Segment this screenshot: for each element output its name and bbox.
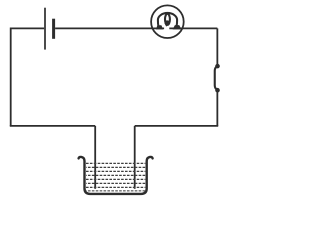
lamp L1 filament dome arch [158,13,177,27]
wire top-left segment [11,27,44,29]
lamp L1 filament loop bottom knot fill [165,20,170,25]
electrode right [134,126,136,189]
switch S1 bottom terminal dot [215,88,220,93]
switch S1 top terminal dot [215,64,220,69]
switch S1 blade [215,66,218,89]
wire bottom-left segment [10,125,95,127]
beaker [79,157,153,194]
electrolyte liquid dashes [86,163,145,190]
battery B1 long plate (+) [44,8,46,50]
wire left side [10,28,12,126]
lamp L1 circle [151,5,184,38]
wire top-right segment [169,27,217,29]
wire right side upper [216,28,218,64]
lamp L1 filament right foot flare [173,25,182,29]
battery B1 short plate (-) [52,19,55,39]
lamp L1 filament hanging loop [165,14,170,25]
wire top-middle segment [55,27,164,29]
wire right side lower [216,92,218,126]
lamp L1 filament left foot flare [156,25,163,29]
electrode left [94,126,96,189]
wire bottom-right segment [135,125,219,127]
